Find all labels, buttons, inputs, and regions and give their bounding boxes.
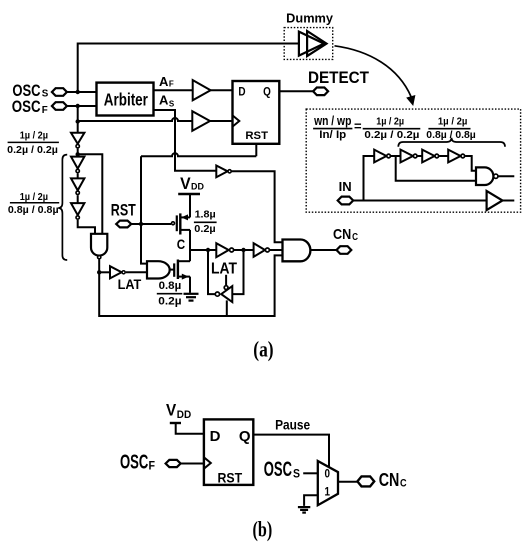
svg-text:LAT: LAT [118,277,142,292]
svg-text:(b): (b) [253,517,273,542]
svg-text:wn / wp: wn / wp [313,114,351,128]
svg-text:V: V [166,402,176,420]
svg-text:DD: DD [177,409,191,421]
svg-text:DETECT: DETECT [308,68,370,87]
svg-text:D: D [210,428,221,445]
svg-text:V: V [180,174,191,193]
svg-text:Pause: Pause [275,418,310,433]
svg-text:0.8µ / 0.8µ: 0.8µ / 0.8µ [426,130,476,141]
svg-text:1: 1 [325,485,331,499]
svg-text:OSC: OSC [264,458,292,481]
svg-text:0.8µ: 0.8µ [159,280,182,292]
svg-text:LAT: LAT [211,261,237,278]
svg-text:C: C [177,236,185,252]
svg-text:DD: DD [191,181,204,191]
svg-text:1.8µ: 1.8µ [195,210,216,221]
svg-text:F: F [42,105,48,116]
svg-text:D: D [238,84,245,98]
svg-text:CN: CN [333,227,351,243]
svg-text:CN: CN [379,470,400,490]
svg-text:S: S [42,88,49,99]
svg-text:OSC: OSC [12,98,41,116]
svg-text:1µ / 2µ: 1µ / 2µ [20,130,48,141]
svg-text:A: A [159,74,169,89]
svg-text:S: S [293,468,300,480]
svg-text:1µ / 2µ: 1µ / 2µ [438,116,468,127]
svg-text:Arbiter: Arbiter [104,90,148,110]
svg-text:0.2µ / 0.2µ: 0.2µ / 0.2µ [7,145,58,156]
svg-text:RST: RST [245,130,268,142]
svg-text:RST: RST [218,470,243,485]
svg-text:IN: IN [339,179,352,194]
svg-text:0.2µ: 0.2µ [194,224,215,235]
svg-text:C: C [352,232,358,243]
svg-text:A: A [159,93,169,108]
svg-text:In/ Ip: In/ Ip [319,129,346,141]
svg-text:Q: Q [263,84,271,98]
svg-text:(a): (a) [253,337,273,362]
svg-text:OSC: OSC [12,82,40,100]
svg-text:0: 0 [325,467,331,481]
svg-text:F: F [169,79,174,88]
svg-text:OSC: OSC [120,452,148,474]
svg-text:0.2µ / 0.2µ: 0.2µ / 0.2µ [364,130,419,141]
svg-text:C: C [400,478,407,490]
svg-text:F: F [149,461,156,473]
svg-text:S: S [169,100,175,109]
svg-text:1µ / 2µ: 1µ / 2µ [376,116,404,127]
svg-text:Dummy: Dummy [286,12,333,26]
svg-text:0.2µ: 0.2µ [158,296,181,308]
svg-text:=: = [354,118,362,133]
svg-text:Q: Q [239,428,251,445]
svg-text:0.8µ / 0.8µ: 0.8µ / 0.8µ [8,205,59,216]
svg-text:1µ / 2µ: 1µ / 2µ [20,192,48,203]
svg-text:RST: RST [111,202,136,220]
